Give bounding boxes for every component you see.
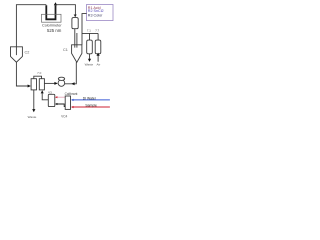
wire colorimeter outlet over to mixing column (56, 5, 76, 17)
wire column outlet into vessel C1 (75, 29, 77, 48)
wire pump to vessel C1 outlet (65, 62, 77, 84)
arrowhead toward pump (71, 82, 74, 85)
red wire sample into VC4 (73, 106, 110, 108)
pump tube 2 (95, 40, 101, 54)
svg-text:Calibrant: Calibrant (65, 92, 78, 96)
svg-text:VC4: VC4 (61, 114, 67, 118)
arrowhead bottom waste (32, 109, 35, 112)
wire reagent box to manifold tee (82, 14, 98, 45)
svg-text:Sample: Sample (85, 103, 97, 107)
colorimeter flow cell U-tube (46, 5, 55, 19)
mixing column (72, 18, 78, 29)
arrowhead into pump (54, 82, 57, 85)
black arrowhead into V3 (55, 103, 58, 105)
arrowhead down into mixing column (74, 15, 77, 18)
arrowhead into heater left block (28, 85, 31, 88)
arrowhead up at flow cell outlet (54, 2, 57, 5)
wire C2 dip tube up and over to colorimeter inlet (16, 5, 46, 55)
arrowhead air up (97, 53, 100, 56)
heater block left (31, 79, 36, 90)
svg-text:7.7: 7.7 (95, 29, 99, 33)
svg-text:Waste: Waste (85, 62, 94, 66)
vessel C1 (72, 45, 82, 63)
wire heater left block to waste (33, 90, 35, 110)
wire pump tube 1 to waste (89, 54, 91, 60)
blue arrowhead into VC4 (71, 99, 74, 101)
wire air into pump tube 2 (97, 54, 99, 61)
svg-text:R2 SnCl2: R2 SnCl2 (88, 9, 104, 13)
container C2 (11, 47, 23, 62)
reagent box (87, 5, 114, 21)
arrowhead up into heater right block (41, 90, 44, 93)
wire valve V3 to heater right block (42, 93, 48, 99)
svg-text:DI Water: DI Water (83, 96, 97, 100)
svg-text:Colorimeter: Colorimeter (42, 23, 62, 27)
svg-text:C2: C2 (25, 51, 30, 55)
svg-text:Air: Air (97, 62, 101, 66)
svg-text:7.1: 7.1 (87, 29, 91, 33)
valve V3 (48, 94, 55, 106)
black wire VC4 to V3 (57, 104, 65, 107)
valve VC4 (65, 96, 70, 109)
heater block right (39, 79, 44, 90)
svg-text:7.0: 7.0 (37, 71, 42, 75)
colorimeter box (42, 14, 62, 22)
red arrowhead into VC4 (71, 106, 74, 108)
pump body (58, 80, 65, 87)
svg-text:R3 Color: R3 Color (88, 14, 103, 18)
svg-text:Waste: Waste (28, 115, 37, 119)
pink wire VC4 to V3 (57, 96, 66, 98)
blue wire DI water into VC4 (73, 99, 110, 101)
wire C2 tip down to heater unit (16, 62, 28, 86)
arrowhead waste down (88, 59, 91, 62)
svg-text:C1: C1 (63, 48, 68, 52)
heater bridge wire (34, 76, 42, 79)
wire heater right block to pump (44, 82, 54, 84)
red arrowhead into V3 (55, 96, 58, 98)
svg-text:525 nm: 525 nm (47, 28, 62, 33)
pump tube 1 (87, 40, 93, 54)
pump cap (58, 77, 64, 80)
